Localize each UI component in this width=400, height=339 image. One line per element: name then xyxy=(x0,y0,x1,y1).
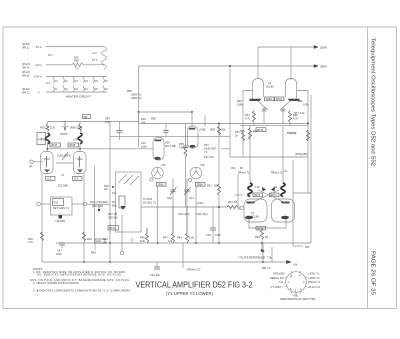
svg-text:〈250V Y1: 〈250V Y1 xyxy=(129,93,142,97)
resistor R50 stub xyxy=(94,243,96,250)
svg-text:R35: R35 xyxy=(179,142,184,146)
svg-text:R55: R55 xyxy=(127,89,132,93)
svg-text:1M: 1M xyxy=(103,241,107,245)
svg-text:100n: 100n xyxy=(215,233,221,237)
svg-text:R42: R42 xyxy=(228,200,233,204)
label box R33 xyxy=(95,239,105,243)
svg-text:SET GAIN Y1: SET GAIN Y1 xyxy=(53,206,69,210)
svg-text:GROUND: GROUND xyxy=(273,272,285,276)
electrode V1b xyxy=(79,156,81,167)
resistor R60 into coil xyxy=(79,124,82,132)
svg-text:AMPLIFIER PLUG SKM TYPE: AMPLIFIER PLUG SKM TYPE xyxy=(280,297,316,301)
wire pot link xyxy=(40,203,50,205)
svg-text:V2: V2 xyxy=(65,87,69,91)
svg-text:V5: V5 xyxy=(95,79,99,83)
svg-text:V1: V1 xyxy=(55,87,59,91)
svg-text:L30: L30 xyxy=(41,138,46,142)
svg-text:R37: R37 xyxy=(204,143,209,147)
tube V1a envelope xyxy=(41,152,54,174)
wire into V1b xyxy=(79,122,81,125)
svg-text:DC: DC xyxy=(112,200,116,204)
resistor R79 rail xyxy=(307,130,310,141)
svg-text:V3: V3 xyxy=(75,87,79,91)
wire V5B left rail upper xyxy=(185,124,187,137)
transformer winding T1 xyxy=(102,47,107,70)
trimmer stubs xyxy=(172,192,174,207)
wire cathode join xyxy=(249,219,286,228)
svg-text:WE 7.2: WE 7.2 xyxy=(262,266,271,270)
wire +6V line right xyxy=(83,64,104,66)
svg-text:Telequipment Oscilloscopes Typ: Telequipment Oscilloscopes Types D52 and… xyxy=(370,38,376,166)
svg-text:V4: V4 xyxy=(85,87,89,91)
svg-text:SERIAL NO: SERIAL NO xyxy=(270,276,284,280)
svg-text:FROM CCT: FROM CCT xyxy=(187,268,201,272)
svg-text:〈250V Y2: 〈250V Y2 xyxy=(129,96,142,100)
wire screens xyxy=(249,126,251,183)
svg-text:R41: R41 xyxy=(207,184,212,188)
svg-text:2.2k: 2.2k xyxy=(50,126,56,130)
svg-text:R38: R38 xyxy=(210,128,215,132)
svg-text:56k: 56k xyxy=(214,184,219,188)
svg-text:(PL4/2: (PL4/2 xyxy=(22,42,30,46)
svg-text:(R60) 2.2k: (R60) 2.2k xyxy=(70,126,83,130)
heater V3 xyxy=(73,77,74,93)
wire 200V branch right xyxy=(290,47,292,80)
svg-text:HEATER CIRCUIT: HEATER CIRCUIT xyxy=(66,95,91,99)
svg-text:C40: C40 xyxy=(167,196,172,200)
svg-text:+B D.C.A7: +B D.C.A7 xyxy=(308,285,321,289)
label box 3R38 xyxy=(68,143,79,147)
svg-text:V3: V3 xyxy=(75,79,79,83)
node dots on bus xyxy=(218,123,220,125)
svg-text:100n: 100n xyxy=(56,252,62,256)
svg-text:12k: 12k xyxy=(168,239,173,243)
wire inter-grid xyxy=(56,162,73,164)
svg-text:3R38: 3R38 xyxy=(69,143,76,147)
svg-text:1C2: 1C2 xyxy=(47,177,52,181)
svg-text:1M: 1M xyxy=(112,191,116,195)
svg-text:(PK 1): (PK 1) xyxy=(22,46,29,50)
svg-text:6.3V o: 6.3V o xyxy=(34,75,42,79)
anode V4B xyxy=(288,99,300,101)
svg-text:A.C.: A.C. xyxy=(46,81,51,85)
node dot xyxy=(261,249,264,252)
svg-text:100k: 100k xyxy=(303,103,309,107)
svg-text:100k: 100k xyxy=(237,103,243,107)
wire V6A drop xyxy=(157,186,159,243)
coil L31 xyxy=(78,133,82,144)
pot SET GAIN Y1 outer box xyxy=(51,197,73,215)
svg-text:745: 745 xyxy=(200,163,205,167)
cathode V7B xyxy=(281,216,289,219)
anode V4A xyxy=(250,99,262,101)
label box 3R69 xyxy=(265,97,275,101)
svg-text:DC BAL Y2: DC BAL Y2 xyxy=(143,201,157,205)
svg-text:PT 2: PT 2 xyxy=(92,58,98,62)
anode bar V7B xyxy=(281,202,290,204)
junction dots HT return bus xyxy=(109,242,111,244)
wire output stage bus xyxy=(240,125,308,127)
svg-text:MR: MR xyxy=(84,115,88,119)
svg-text:(Y1 ONLY): (Y1 ONLY) xyxy=(270,285,283,289)
tube V1b envelope xyxy=(74,152,87,174)
wire R41 drop xyxy=(218,124,220,185)
node dot xyxy=(112,186,114,188)
capacitor C46 xyxy=(212,207,214,228)
wire x205 stub xyxy=(204,115,206,126)
capacitor C44 xyxy=(156,262,158,267)
wire HT return bus xyxy=(56,242,311,244)
svg-text:+V5B: +V5B xyxy=(199,128,206,132)
label box 3R37 xyxy=(50,143,61,147)
coil L30 xyxy=(46,133,50,144)
svg-text:R33: R33 xyxy=(87,237,92,241)
svg-text:VERTICAL AMPLIFIER D52 FIG: VERTICAL AMPLIFIER D52 FIG 3-2 xyxy=(136,281,253,290)
pot wiper xyxy=(59,215,63,219)
svg-text:C48(16): C48(16) xyxy=(287,131,297,135)
wire top bus left xyxy=(48,121,139,123)
heater V5 xyxy=(93,77,94,93)
wire into V1a xyxy=(47,122,49,125)
label box MR xyxy=(83,115,91,119)
node junction dot xyxy=(191,111,193,113)
svg-text:R44⩽+7L: R44⩽+7L xyxy=(238,171,250,175)
svg-text:3R37: 3R37 xyxy=(51,143,58,147)
svg-text:R37 1M: R37 1M xyxy=(108,212,117,216)
svg-text:R39 (C40)(R41): R39 (C40)(R41) xyxy=(90,200,109,204)
plug pins xyxy=(285,271,308,294)
svg-text:C31: C31 xyxy=(141,141,146,145)
label box 1C2 xyxy=(46,177,56,181)
resistor R58 xyxy=(72,63,83,67)
svg-text:R56: R56 xyxy=(151,117,156,121)
vertical stub xyxy=(131,238,133,243)
wire 250V feed lower xyxy=(138,112,140,147)
svg-text:V6: V6 xyxy=(105,87,109,91)
svg-text:R40: R40 xyxy=(103,237,108,241)
svg-text:(Y1 UPPER Y2 LOWER): (Y1 UPPER Y2 LOWER) xyxy=(166,291,214,296)
svg-text:R42: R42 xyxy=(231,166,236,170)
svg-text:NO. DENOTES AMPLIFIER/MAINFRAM: NO. DENOTES AMPLIFIER/MAINFRAME NOS. ON … xyxy=(37,273,121,277)
resistor R41 xyxy=(218,184,221,195)
svg-text:6V o: 6V o xyxy=(36,45,42,49)
cathode blob V5B xyxy=(190,145,196,148)
node junction dot xyxy=(138,111,140,113)
svg-text:300mA Y1: 300mA Y1 xyxy=(308,280,320,284)
tube V7A envelope xyxy=(244,199,267,222)
svg-text:BAL: BAL xyxy=(112,204,117,208)
junction dots ground bus xyxy=(83,261,85,263)
svg-text:(PL1/5: (PL1/5 xyxy=(22,62,30,66)
svg-text:(C30): (C30) xyxy=(57,154,64,158)
node dot lower xyxy=(98,209,100,211)
svg-text:V4: V4 xyxy=(85,79,89,83)
right tube rail xyxy=(292,160,294,246)
svg-text:+300V Y1: +300V Y1 xyxy=(308,272,320,276)
heater V4 xyxy=(83,77,84,93)
svg-text:R77 3.3k: R77 3.3k xyxy=(294,111,305,115)
svg-text:C35 47p: C35 47p xyxy=(108,216,118,220)
wire V5B anode drop xyxy=(191,112,193,126)
svg-text:V5A: V5A xyxy=(165,141,170,145)
junction xyxy=(218,206,220,208)
capacitor C47 xyxy=(59,242,65,244)
tube V6A xyxy=(152,167,164,179)
arrow 280V xyxy=(313,65,318,68)
wire anode feed xyxy=(139,111,193,113)
tube V6B xyxy=(190,167,202,179)
svg-text:L31: L31 xyxy=(73,138,78,142)
svg-text:Y2: Y2 xyxy=(204,150,208,154)
svg-text:(PK 2): (PK 2) xyxy=(22,91,29,95)
resistor R48 xyxy=(261,230,264,239)
label box 3R62 xyxy=(157,182,167,186)
grid cap V6B xyxy=(188,178,191,181)
anode V1a xyxy=(44,170,50,173)
svg-text:3R73: 3R73 xyxy=(254,193,261,197)
wire 6V line xyxy=(46,46,104,48)
svg-text:I/P: I/P xyxy=(29,165,32,169)
svg-text:1M: 1M xyxy=(104,187,108,191)
resistor R68 xyxy=(289,111,292,122)
wire cathode rails to bus xyxy=(41,241,43,243)
svg-text:+V7: +V7 xyxy=(92,51,97,55)
svg-text:4R0 100n: 4R0 100n xyxy=(92,204,104,208)
left stage rail xyxy=(243,91,253,158)
arrow 200V xyxy=(313,46,318,49)
svg-text:280V: 280V xyxy=(320,65,327,69)
svg-text:V4: V4 xyxy=(268,81,272,85)
svg-text:+6V o: +6V o xyxy=(35,63,42,67)
coil L11 xyxy=(281,183,285,197)
svg-text:3R64: 3R64 xyxy=(197,182,204,186)
label box 3R74 xyxy=(270,193,280,197)
svg-text:C38 (10n): C38 (10n) xyxy=(196,212,208,216)
svg-text:R50: R50 xyxy=(91,251,96,255)
cathode link bus xyxy=(48,148,154,150)
svg-text:6CL8A: 6CL8A xyxy=(266,85,274,89)
wire ground bus xyxy=(42,243,290,262)
tube V7B envelope xyxy=(272,199,295,222)
svg-text:4.7k: 4.7k xyxy=(293,117,299,121)
svg-text:8.2k: 8.2k xyxy=(189,236,195,240)
svg-text:3R70: 3R70 xyxy=(276,97,283,101)
trimmer C33 xyxy=(62,126,68,127)
wire mid rail xyxy=(109,122,111,263)
svg-text:8.2k: 8.2k xyxy=(140,239,146,243)
wire left HT dropper xyxy=(138,66,140,122)
pot element box xyxy=(53,199,64,206)
anode bar V5B xyxy=(189,128,196,130)
svg-text:(PL4/3: (PL4/3 xyxy=(22,70,30,74)
coil L29 box xyxy=(37,133,46,145)
svg-text:743: 743 xyxy=(161,163,166,167)
cathode V7A xyxy=(245,216,253,219)
wire switch drop xyxy=(121,215,123,251)
switch outline xyxy=(116,172,142,232)
resistor R35 xyxy=(185,136,187,146)
svg-text:2200P: 2200P xyxy=(60,132,68,136)
svg-text:6F17 MB: 6F17 MB xyxy=(165,144,176,148)
wire V6B drop xyxy=(195,186,197,243)
label box 3R75 xyxy=(256,226,266,230)
right bus drop xyxy=(310,193,312,243)
crossover arrowheads xyxy=(262,187,266,192)
anode diagonals xyxy=(258,101,268,110)
svg-text:56k: 56k xyxy=(221,128,226,132)
svg-text:R45: R45 xyxy=(240,129,245,133)
wire 280V rail xyxy=(139,65,314,67)
left grid rail xyxy=(238,174,240,209)
input jack xyxy=(30,160,34,164)
wire to bus xyxy=(261,228,263,230)
svg-text:(PK 4): (PK 4) xyxy=(22,66,29,70)
svg-text:1C4: 1C4 xyxy=(74,177,79,181)
heater V6 xyxy=(103,77,104,93)
svg-text:+7L: +7L xyxy=(283,169,288,173)
switch wafer diagonals xyxy=(118,174,127,183)
svg-text:PL2 704: PL2 704 xyxy=(204,155,214,159)
label Y PLATE REFERENCE xyxy=(262,250,265,253)
wire 280V branch xyxy=(229,66,231,157)
svg-text:V1: V1 xyxy=(55,79,59,83)
svg-text:4. CIRCUIT SHOWN IN D52 P: 4. CIRCUIT SHOWN IN D52 POSITION xyxy=(33,281,79,285)
svg-text:3. ✱ DENOTES COMPONENTS CO: 3. ✱ DENOTES COMPONENTS COMMON TO BOTH Y… xyxy=(33,288,130,292)
label box 3R64 xyxy=(196,182,206,186)
margin separator rule xyxy=(367,27,369,309)
resistor R59 into coil xyxy=(46,124,49,132)
heater V2 xyxy=(63,77,64,93)
svg-text:R45⩽+7L: R45⩽+7L xyxy=(271,171,283,175)
svg-text:(R30): (R30) xyxy=(64,154,71,158)
wire top bus right xyxy=(139,123,309,125)
anode bar V7A xyxy=(247,202,256,204)
anode V1b xyxy=(77,170,83,173)
svg-text:(C34): (C34) xyxy=(197,201,204,205)
label box 3R41 xyxy=(108,226,119,231)
svg-text:V5: V5 xyxy=(95,87,99,91)
svg-text:GAIN SET: GAIN SET xyxy=(204,147,217,151)
tube V5B envelope xyxy=(188,126,199,148)
grid circle V7A xyxy=(240,206,244,210)
resistor R38 zig xyxy=(218,126,221,135)
svg-text:200V: 200V xyxy=(320,46,327,50)
svg-text:R31: R31 xyxy=(54,201,59,205)
svg-text:PAGE 26 OF 35: PAGE 26 OF 35 xyxy=(370,251,376,295)
label box 1C4 xyxy=(73,177,83,181)
svg-text:(R78)(180): (R78)(180) xyxy=(295,152,308,156)
capacitor C31 xyxy=(119,122,121,131)
coil L10 xyxy=(248,183,252,197)
svg-text:C39 (10n): C39 (10n) xyxy=(178,212,190,216)
svg-text:ECC88: ECC88 xyxy=(58,184,68,188)
svg-text:C46: C46 xyxy=(206,233,211,237)
svg-text:+300V Y2: +300V Y2 xyxy=(308,276,320,280)
svg-text:R48: R48 xyxy=(255,235,260,239)
wire grid bus xyxy=(110,135,230,137)
crossover diagonals xyxy=(250,190,279,204)
svg-text:R59: R59 xyxy=(40,126,45,130)
heater V1 xyxy=(53,77,54,93)
svg-text:4.7k: 4.7k xyxy=(28,240,34,244)
svg-text:7.5: 7.5 xyxy=(75,67,79,71)
svg-text:(PK 5): (PK 5) xyxy=(22,74,29,78)
label box 3R73 xyxy=(253,193,263,197)
svg-text:7.5k: 7.5k xyxy=(267,256,273,260)
svg-text:+5k: +5k xyxy=(293,263,298,267)
svg-text:C41: C41 xyxy=(189,196,194,200)
svg-text:700: 700 xyxy=(179,146,184,150)
svg-text:TO D52: TO D52 xyxy=(143,197,153,201)
svg-text:3R41: 3R41 xyxy=(109,226,116,230)
svg-text:2.2k: 2.2k xyxy=(96,239,102,243)
wire lower bus xyxy=(141,206,227,208)
wire to V7A grid xyxy=(238,207,240,208)
svg-text:500: 500 xyxy=(74,56,79,60)
wire V1a cathode drop xyxy=(41,174,43,241)
svg-text:R47: R47 xyxy=(163,236,168,240)
svg-text:R65: R65 xyxy=(237,99,242,103)
wire heater bus top xyxy=(46,76,107,78)
pot DC BAL xyxy=(119,196,125,208)
grid circle V4A xyxy=(262,108,266,112)
grid circle V4B xyxy=(281,108,285,112)
wire 200V branch left xyxy=(257,47,259,79)
label box R69 xyxy=(256,128,266,132)
grid cap V6A xyxy=(150,178,153,181)
svg-text:100: 100 xyxy=(253,129,258,133)
svg-text:R66: R66 xyxy=(298,99,303,103)
resistor R45 screen xyxy=(249,128,252,139)
svg-text:V6: V6 xyxy=(105,79,109,83)
plug circle xyxy=(286,272,307,293)
wire V5 drop xyxy=(185,157,187,208)
gain pot terminals xyxy=(37,202,41,206)
wire 200V rail xyxy=(258,46,313,48)
cathode blob V5A xyxy=(154,157,160,160)
svg-text:R46: R46 xyxy=(140,236,145,240)
wire grid lead xyxy=(34,161,44,163)
svg-text:CH: CH xyxy=(279,280,283,284)
trimmer C41 xyxy=(186,179,188,191)
node xyxy=(120,251,123,254)
wire 12k arrow line xyxy=(271,247,273,262)
svg-text:3R62: 3R62 xyxy=(158,182,165,186)
svg-text:100n: 100n xyxy=(141,145,147,149)
right stage rail xyxy=(297,91,309,194)
svg-text:(PL4/1: (PL4/1 xyxy=(22,87,30,91)
svg-text:Y2k MIN: Y2k MIN xyxy=(55,219,65,223)
svg-text:R49: R49 xyxy=(177,236,182,240)
rail bottom link xyxy=(293,192,311,194)
capacitor C32 xyxy=(165,124,167,131)
wire grid feed lower stage xyxy=(230,156,308,158)
tube V5A envelope xyxy=(153,138,164,161)
wire pot to rail xyxy=(87,203,110,205)
svg-text:3R72: 3R72 xyxy=(257,128,264,132)
svg-text:R67: R67 xyxy=(245,113,250,117)
tube V4A envelope xyxy=(253,79,264,102)
svg-text:C47: C47 xyxy=(57,249,62,253)
svg-text:3R75: 3R75 xyxy=(257,226,264,230)
wire V1b cathode drop xyxy=(83,174,85,241)
resistor R67 xyxy=(253,111,256,122)
wire heater bus bottom xyxy=(46,91,107,93)
trimmer C40 xyxy=(172,179,174,191)
label box 3R70 xyxy=(275,97,285,101)
svg-text:3R69: 3R69 xyxy=(266,97,273,101)
svg-text:4.7k: 4.7k xyxy=(245,117,251,121)
